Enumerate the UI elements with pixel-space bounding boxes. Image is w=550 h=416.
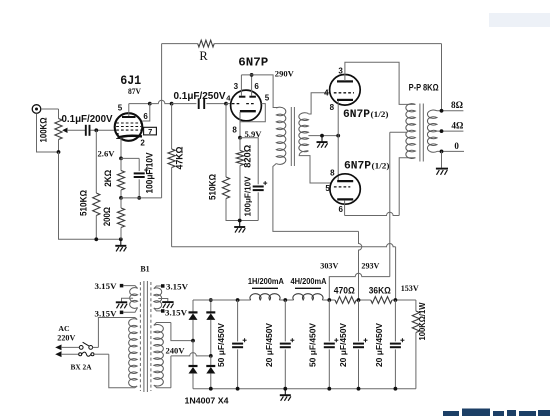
- switch (mains): [61, 346, 79, 348]
- power transformer core: [139, 282, 141, 391]
- wire cap to 6J1 grid: [91, 129, 115, 131]
- svg-text:2: 2: [140, 139, 145, 148]
- svg-text:2.6V: 2.6V: [98, 149, 115, 158]
- heater winding 3.15V right coil: [154, 286, 161, 289]
- node plate/pin6: [148, 102, 152, 106]
- node 47K top: [170, 102, 174, 106]
- node rail cap2/ground: [283, 387, 287, 391]
- svg-text:8: 8: [330, 168, 335, 177]
- ground (OPT secondary): [441, 151, 443, 168]
- diode D1 (1N4007): [192, 300, 194, 312]
- wire pot bottom down to ground bus: [59, 152, 121, 239]
- wire 47K supply line (153V feed): [172, 244, 396, 247]
- svg-text:0.1μF/250V: 0.1μF/250V: [174, 90, 226, 102]
- svg-text:8: 8: [330, 103, 335, 112]
- svg-text:3: 3: [338, 66, 343, 75]
- node output cathodes: [336, 134, 340, 138]
- interstage primary bottom lead: [273, 164, 359, 232]
- svg-text:293V: 293V: [361, 260, 380, 270]
- svg-text:20 μF/450V: 20 μF/450V: [338, 323, 348, 367]
- potentiometer 100KΩ zigzag: [55, 119, 62, 140]
- svg-text:153V: 153V: [401, 283, 420, 293]
- svg-text:1H/200mA: 1H/200mA: [248, 276, 284, 286]
- wire top feedback left segment: [162, 43, 198, 45]
- potentiometer wiper arrow: [62, 128, 67, 133]
- capacitor 100μF/10V (6J1 cathode): [138, 158, 140, 171]
- svg-text:6: 6: [254, 82, 259, 91]
- wire plate rail to transformer: [241, 75, 277, 108]
- svg-text:510KΩ: 510KΩ: [79, 190, 89, 216]
- tube 6J1 envelope: [115, 113, 143, 141]
- svg-text:4H/200mA: 4H/200mA: [291, 276, 327, 286]
- node 200R bottom: [119, 237, 123, 241]
- tube 6N7P(1/2) lower envelope: [330, 174, 360, 204]
- svg-text:8Ω: 8Ω: [451, 100, 463, 110]
- heater winding 3.15V left coil: [123, 286, 137, 289]
- svg-text:7: 7: [148, 127, 152, 136]
- resistor 47KΩ (6J1 plate load): [171, 104, 173, 149]
- capacitor 0.1uF/200V: [85, 125, 87, 136]
- 6J1 plate lead up: [128, 104, 130, 116]
- node 510K bottom: [94, 237, 98, 241]
- node 8Ω tap (feedback): [440, 109, 444, 113]
- svg-text:220V: 220V: [57, 333, 75, 342]
- resistor 2KΩ: [120, 158, 122, 170]
- B+ rail segment 5: [392, 299, 416, 301]
- svg-text:5: 5: [265, 94, 270, 103]
- svg-text:20 μF/450V: 20 μF/450V: [264, 323, 274, 367]
- node 153V: [394, 298, 398, 302]
- capacitor 50μF/450V #3: [328, 300, 330, 341]
- wire 6J1 plate to node: [129, 103, 150, 105]
- svg-text:50 μF/450V: 50 μF/450V: [216, 323, 226, 367]
- secondary tap 0: [437, 150, 464, 152]
- svg-text:8: 8: [232, 125, 237, 134]
- svg-text:(1/2): (1/2): [372, 161, 390, 171]
- svg-text:4Ω: 4Ω: [451, 121, 463, 131]
- watermark fragment (blue text cut at bottom): [443, 409, 550, 416]
- svg-text:470Ω: 470Ω: [334, 285, 355, 295]
- svg-text:290V: 290V: [275, 69, 295, 79]
- node 0 tap: [440, 150, 444, 154]
- svg-text:5: 5: [325, 184, 330, 193]
- resistor 510KΩ (6N7P grid leak): [225, 104, 227, 177]
- lower tube cathode bar: [337, 180, 353, 182]
- capacitor 0.1μF/250V: [172, 103, 197, 105]
- svg-text:100μF/10V: 100μF/10V: [144, 152, 154, 193]
- svg-text:3.15V: 3.15V: [166, 283, 188, 292]
- svg-text:6N7P: 6N7P: [343, 109, 370, 121]
- heater winding left CT ground: [122, 298, 134, 301]
- svg-text:3: 3: [234, 82, 239, 91]
- svg-text:6N7P: 6N7P: [238, 57, 268, 70]
- node rail cap4: [357, 387, 361, 391]
- B+ rail segment 2: [279, 299, 293, 301]
- svg-text:200Ω: 200Ω: [102, 207, 112, 226]
- choke 4H/200mA: [293, 294, 323, 300]
- faint header box: [489, 13, 550, 27]
- lower plate lead with hump over B+ riser: [344, 200, 346, 215]
- svg-text:AC: AC: [58, 324, 70, 333]
- node 6N7P plates: [250, 73, 254, 77]
- capacitor 20μF/450V #5: [394, 300, 396, 341]
- ground (main filter): [284, 389, 286, 396]
- node center tap ground: [320, 134, 324, 138]
- lower cathode lead: [337, 136, 339, 181]
- fuse BX 2A: [61, 353, 79, 355]
- svg-text:47KΩ: 47KΩ: [175, 147, 185, 170]
- svg-text:R: R: [199, 49, 208, 63]
- svg-text:6: 6: [143, 112, 148, 121]
- svg-text:100KΩ/1W: 100KΩ/1W: [417, 302, 427, 341]
- node 6N7P grid: [224, 102, 228, 106]
- interstage transformer core: [290, 107, 292, 166]
- ground (6N7P cathode): [239, 221, 241, 228]
- wire 293V riser: [359, 231, 362, 300]
- node 293V: [357, 298, 361, 302]
- resistor R (feedback): [198, 40, 215, 47]
- heater winding right CT ground: [158, 299, 168, 302]
- node grid / 510K top: [94, 128, 98, 132]
- 6N7P grid dashes: [232, 103, 241, 105]
- wire HV bottom to bridge with hump: [170, 356, 172, 388]
- interstage transformer primary coil: [276, 107, 286, 164]
- interstage secondary top lead to upper grid: [308, 93, 329, 114]
- terminal 3.15V left bottom: [120, 311, 124, 315]
- diode D4 (1N4007): [210, 356, 212, 366]
- node bridge right mid: [209, 354, 213, 358]
- B+ rail segment 4: [356, 299, 371, 301]
- AC input arrows: [55, 345, 61, 351]
- svg-text:2KΩ: 2KΩ: [103, 170, 113, 187]
- ground (interstage CT): [321, 136, 323, 143]
- svg-text:87V: 87V: [128, 87, 141, 96]
- capacitor 20μF/450V #2: [284, 300, 286, 341]
- svg-text:0: 0: [454, 141, 459, 151]
- wire cathode feedback bus: [121, 197, 162, 199]
- power transformer primary coil: [135, 318, 137, 320]
- svg-text:3.15V: 3.15V: [95, 282, 117, 291]
- node cap bottom: [137, 196, 141, 200]
- node bridge left mid: [191, 339, 195, 343]
- B+ rail segment 1: [193, 299, 251, 301]
- HV winding 240V coil: [154, 323, 171, 326]
- svg-text:B1: B1: [140, 265, 149, 274]
- upper plate lead to OPT top: [345, 62, 416, 104]
- output transformer primary coil: [406, 104, 416, 159]
- svg-text:20 μF/450V: 20 μF/450V: [374, 323, 384, 367]
- 6N7P cathode bar: [240, 110, 256, 112]
- potentiometer bottom lead: [58, 140, 60, 153]
- svg-text:BX 2A: BX 2A: [71, 362, 92, 371]
- svg-text:(1/2): (1/2): [371, 109, 389, 119]
- node rail cap3: [327, 387, 331, 391]
- interstage secondary center tap: [308, 135, 338, 137]
- wire jack sleeve down: [37, 114, 59, 153]
- 6N7P cathode lead: [239, 112, 241, 138]
- svg-text:6J1: 6J1: [120, 73, 141, 88]
- 6J1 grid dashes: [116, 122, 141, 124]
- node bridge plus: [209, 298, 213, 302]
- tube 6N7P(1/2) upper envelope: [330, 75, 361, 106]
- node 2K bottom: [119, 196, 123, 200]
- upper tube grid dashes: [334, 92, 354, 94]
- svg-text:100μF/10V: 100μF/10V: [243, 176, 253, 216]
- terminal 3.15V right bottom: [161, 309, 165, 313]
- capacitor 100μF/10V (6N7P cathode): [240, 138, 258, 185]
- terminal 3.15V right top: [161, 284, 165, 288]
- wire cathode node to cap branch: [121, 157, 139, 159]
- 6J1 plate bar: [122, 116, 136, 118]
- wire grid2 tie to cathode: [240, 104, 265, 122]
- capacitor 50μF/450V #1: [237, 300, 239, 341]
- 6N7P plate bars: [239, 96, 246, 98]
- node 6N7P cathode: [238, 136, 242, 140]
- svg-text:820Ω: 820Ω: [241, 144, 252, 167]
- lower tube plate bar: [337, 198, 353, 200]
- svg-text:0.1μF/200V: 0.1μF/200V: [62, 113, 113, 125]
- node 6N7P ground bus: [238, 219, 242, 223]
- wire jack to pot top: [41, 108, 59, 110]
- wire 303V to OPT center tap: [329, 277, 354, 301]
- node cap2 top: [283, 298, 287, 302]
- svg-text:P-P 8KΩ: P-P 8KΩ: [409, 83, 439, 93]
- wire HV top to bridge: [171, 323, 193, 341]
- node rail cap5: [394, 387, 398, 391]
- ground (input stage bus): [120, 239, 122, 246]
- svg-text:4: 4: [324, 89, 329, 98]
- resistor 200Ω: [120, 198, 122, 208]
- node rail cap1: [236, 387, 240, 391]
- ground rail (bottom): [193, 388, 416, 390]
- node 4Ω tap: [440, 129, 444, 133]
- svg-text:100KΩ: 100KΩ: [39, 118, 49, 143]
- svg-text:303V: 303V: [320, 261, 339, 271]
- choke 1H/200mA: [250, 294, 280, 300]
- svg-text:6: 6: [338, 205, 343, 214]
- svg-text:1N4007 X4: 1N4007 X4: [185, 395, 229, 405]
- svg-text:6N7P: 6N7P: [344, 161, 371, 173]
- diode D3 (1N4007): [210, 300, 212, 312]
- svg-text:50 μF/450V: 50 μF/450V: [308, 323, 318, 367]
- B+ rail segment 3: [322, 299, 335, 301]
- 6J1 cathode lead down: [120, 138, 122, 159]
- secondary tap 4Ω: [437, 130, 463, 132]
- tube 6N7P driver envelope: [231, 90, 262, 121]
- wire plate bus with hump over feedback: [150, 100, 172, 103]
- upper cathode lead: [337, 101, 339, 136]
- 6N7P plate leads: [240, 75, 242, 96]
- svg-text:36KΩ: 36KΩ: [369, 285, 391, 295]
- B+ riser to OPT center tap: [390, 131, 408, 133]
- node 303V: [327, 298, 331, 302]
- diode D2 (1N4007): [192, 341, 194, 366]
- wire feedback drop to 8Ω tap: [441, 44, 443, 111]
- interstage transformer secondary coil: [299, 113, 309, 152]
- resistor 510KΩ (input grid leak): [95, 130, 97, 193]
- pin 7 box (6J1): [144, 127, 157, 135]
- resistor 820Ω: [239, 138, 241, 151]
- wire feedback riser: [161, 44, 163, 198]
- wire grid node to 6N7P: [226, 103, 231, 105]
- svg-text:240V: 240V: [166, 345, 186, 355]
- svg-text:5: 5: [118, 104, 123, 113]
- terminal 3.15V left top: [120, 284, 124, 288]
- wire AC neutral to primary bottom: [109, 354, 135, 388]
- svg-text:3.15V: 3.15V: [95, 309, 117, 318]
- interstage secondary bottom lead to lower grid: [299, 151, 331, 183]
- wire top feedback right segment: [214, 43, 441, 45]
- input jack J1: [32, 105, 41, 114]
- 6J1 cathode bar: [119, 136, 142, 137]
- secondary tap 8Ω: [437, 110, 463, 112]
- resistor 36KΩ: [371, 297, 392, 304]
- node pot bottom: [57, 150, 61, 154]
- node cap1 top: [236, 298, 240, 302]
- potentiometer 100K body lead top: [58, 109, 60, 119]
- resistor 100KΩ/1W bleeder: [415, 300, 417, 311]
- output transformer core: [419, 104, 421, 162]
- svg-text:510KΩ: 510KΩ: [208, 174, 218, 200]
- upper tube plate bar: [337, 80, 353, 82]
- node cathode 6J1: [119, 157, 123, 161]
- svg-text:3.15V: 3.15V: [165, 309, 187, 318]
- node rail D4: [209, 387, 213, 391]
- output transformer secondary coil: [427, 110, 437, 152]
- lower tube grid dashes: [334, 186, 350, 188]
- wire node down to pin 6: [142, 104, 150, 121]
- upper tube cathode bar: [337, 99, 353, 101]
- resistor 470Ω: [335, 297, 356, 304]
- capacitor 20μF/450V #4: [358, 300, 360, 341]
- wire AC hot to primary top: [98, 318, 135, 348]
